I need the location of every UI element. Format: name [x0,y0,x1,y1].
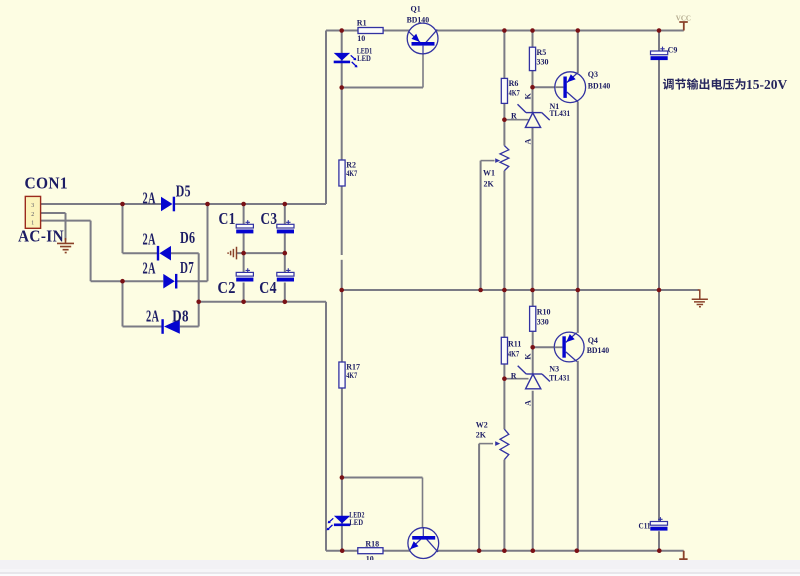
svg-text:BD140: BD140 [588,82,611,91]
ground (mid rail, right) [692,290,708,307]
wire D8 branch [122,281,124,326]
svg-text:C2: C2 [218,278,236,297]
svg-text:R11: R11 [508,340,521,349]
label N1 pin A [523,139,532,145]
wire R6/W1 column [503,31,505,291]
capacitor C1 [236,220,253,233]
wire Q1 base [342,46,423,88]
wire C4 stub [284,253,286,302]
wire Q4 base [533,346,562,348]
svg-text:2A: 2A [146,306,159,325]
label 2A (D7) [143,258,156,277]
junction dot N1 K [530,85,535,90]
wire C2 stub [243,253,245,302]
svg-text:W1: W1 [483,168,495,177]
label C11 [639,521,651,530]
wire Q2 base [342,478,423,537]
wire D6 branch [122,204,124,253]
label N3 pin A [523,400,532,406]
label C3 [261,209,278,228]
wire N1 R pin [504,119,528,121]
svg-text:Q3: Q3 [588,70,598,79]
svg-text:15-20V: 15-20V [746,77,787,92]
svg-text:R: R [511,111,517,120]
capacitor C11 [650,517,667,531]
wire R17/LED2 column [341,290,343,551]
label D6 [180,228,195,247]
svg-text:330: 330 [537,57,549,66]
label R10 / 330 [537,308,551,327]
svg-text:4K7: 4K7 [346,169,357,178]
label W1 / 2K [483,168,495,188]
wire R10/N3 column [532,290,534,551]
resistor R2 4K7 [339,160,345,186]
wire C3 stub [284,204,286,253]
label 2A (D8) [146,306,159,325]
svg-text:2: 2 [31,212,34,218]
label D7 [180,258,194,277]
junction dot Q2 base [340,475,345,480]
label AC-IN [18,226,64,245]
ground bar (bottom right) [679,551,687,560]
wire C9/C11 column [658,31,660,551]
junction dot D7 row [120,279,125,284]
svg-text:2A: 2A [143,258,156,277]
capacitor C4 [277,268,294,281]
wire AC pin1 [41,221,91,282]
resistor R5 330 [529,47,535,70]
potentiometer W2 2K [495,429,509,459]
label R1 / value 10 [357,19,367,43]
junction dots cap bottom row [196,300,287,305]
transistor Q1 BD140 [407,23,438,54]
svg-text:R: R [511,371,517,380]
wire D5/D7 cathode-join column [207,204,209,281]
label N3 pin R [511,371,517,380]
label D8 [172,306,189,325]
svg-text:2K: 2K [484,179,495,188]
wire LED1/R2 column [341,31,343,291]
transistor Q3 BD140 [555,72,586,103]
wire W2 wiper [479,444,493,551]
diode D7 [163,274,176,289]
wire bottom -V rail [326,302,684,551]
transistor Q4 BD140 [554,332,584,362]
label 2A (D5) [143,189,156,208]
label R18 / value 10 [365,539,379,563]
svg-text:C4: C4 [259,278,277,297]
label LED1 / LED [357,47,373,64]
wire Q3 base [533,86,564,88]
label D5 [176,182,191,201]
wire D6/D8 cathode-join column [198,253,200,326]
resistor R10 330 [530,306,536,331]
label R17 / 4K7 [346,362,360,379]
svg-text:K: K [523,92,532,99]
svg-text:R18: R18 [365,539,379,548]
svg-text:TL431: TL431 [550,109,571,118]
junction dots mid rail [339,288,661,293]
svg-text:A: A [523,139,532,145]
wire C1 stub [243,204,245,253]
wire D6 row [123,252,199,254]
junction dots +node row [120,202,287,207]
svg-text:LED: LED [357,54,371,63]
svg-text:AC-IN: AC-IN [18,226,64,245]
wire Q4 emitter/collector column [577,290,579,551]
resistor R1 10 [358,28,383,34]
wire top +V rail [326,31,684,205]
svg-text:LED: LED [349,518,363,527]
svg-text:Q4: Q4 [588,336,598,345]
svg-text:R10: R10 [537,308,551,317]
label N3 / TL431 [549,365,570,383]
svg-text:R6: R6 [509,79,519,88]
note: adjust output voltage 15-20V [663,77,788,92]
wire Q3 emitter/collector column [577,31,579,291]
label N1 pin K [523,92,532,99]
wire mid ground rail [342,289,699,291]
svg-text:R1: R1 [357,19,367,28]
label R11 / 4K7 [508,340,521,359]
wire capacitor mid ground row [236,252,284,254]
TL431 N1 [518,104,550,127]
label C1 [219,209,236,228]
VCC symbol [676,14,691,30]
diode D5 [161,197,174,212]
svg-text:A: A [523,400,532,406]
label Q3 / BD140 [588,70,611,91]
junction dot LED1 bottom [339,85,344,90]
resistor R17 4K7 [339,362,345,388]
junction dot N3 R [502,376,507,381]
label Q1 / BD140 [407,4,430,24]
wire capacitor bottom row [199,301,326,303]
resistor R11 4K7 [501,337,507,364]
svg-text:4K7: 4K7 [508,350,519,359]
svg-text:4K7: 4K7 [509,88,520,97]
wire N3 R pin [504,378,528,380]
svg-text:BD140: BD140 [587,346,610,355]
svg-text:D8: D8 [172,306,189,325]
label Q4 / BD140 [587,336,610,355]
svg-text:W2: W2 [476,421,488,430]
label W2 / 2K [476,421,488,440]
svg-text:2K: 2K [476,430,487,439]
svg-text:C9: C9 [668,46,678,55]
svg-text:2A: 2A [143,189,156,208]
capacitor C2 [236,268,253,281]
svg-text:D6: D6 [180,228,195,247]
svg-text:330: 330 [537,318,549,327]
svg-text:4K7: 4K7 [346,371,357,380]
svg-text:3: 3 [31,203,34,209]
capacitor C3 [277,220,294,233]
label R6 / 4K7 [509,79,520,98]
transistor Q2 (BD140) [408,528,439,559]
label N1 pin R [511,111,517,120]
wire gap (screenshot artifact) [340,255,343,260]
label C4 [259,278,277,297]
svg-text:C1: C1 [219,209,236,228]
svg-text:VCC: VCC [676,14,691,22]
label C2 [218,278,236,297]
label LED2 / LED [349,510,364,527]
TL431 N3 [518,366,550,389]
wire W1 wiper [481,161,495,290]
svg-text:Q1: Q1 [411,4,421,13]
svg-text:N3: N3 [549,365,559,374]
junction dots bottom rail [340,548,662,553]
wire AC pin3 / D5 row node [41,203,326,205]
diode D6 [158,246,171,261]
junction dot N3 K [530,345,535,350]
label N3 pin K [523,353,532,360]
label R5 / 330 [537,48,549,67]
connector CON1 [25,196,40,228]
svg-text:R5: R5 [537,48,547,57]
junction dots top rail [339,28,661,33]
svg-text:10: 10 [357,34,365,43]
svg-text:CON1: CON1 [25,174,69,193]
LED2 [327,516,351,531]
resistor R18 10 [358,548,383,554]
svg-text:D7: D7 [180,258,194,277]
junction dots cap mid row [241,251,287,256]
svg-text:TL431: TL431 [549,373,570,382]
wire R11/W2 column [503,290,505,551]
wire D7 row [91,280,208,282]
label C9 [668,46,678,55]
svg-text:BD140: BD140 [407,16,430,25]
resistor R6 4K7 [501,78,507,103]
svg-text:C3: C3 [261,209,278,228]
label 2A (D6) [143,230,156,249]
ground (capacitor mid point, rotated) [228,247,236,260]
svg-text:2A: 2A [143,230,156,249]
ground (AC input) [57,238,74,253]
diode D8 [163,319,180,334]
wire AC pin2 to ground [41,213,66,241]
wire D8 row [123,326,199,328]
label N1 / TL431 [550,102,571,118]
label R2 / 4K7 [346,160,357,177]
junction dot N1 R [502,117,507,122]
label CON1 [25,174,69,193]
potentiometer W1 2K [495,146,509,171]
svg-text:C11: C11 [639,521,651,530]
capacitor C9 [651,47,668,61]
svg-text:D5: D5 [176,182,191,201]
wire R5/N1 column [532,31,534,291]
svg-text:K: K [523,353,532,360]
LED1 [334,53,358,68]
